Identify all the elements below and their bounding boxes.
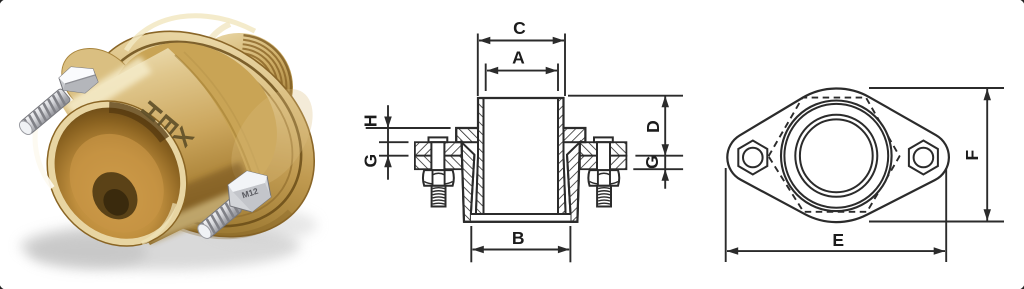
front view: left bolt hole	[743, 148, 763, 168]
front view: socket circle	[795, 115, 877, 197]
front view: right bolt hole	[914, 148, 934, 168]
section: left lower flange plate (hatched)	[415, 156, 462, 170]
section: left bolt cap	[429, 137, 448, 142]
front view: left hex nut	[738, 141, 767, 175]
dimension G (right)	[633, 155, 683, 181]
section: left bolt shaft	[431, 142, 444, 170]
dimension H	[360, 105, 450, 180]
section: left collar (hatched)	[456, 128, 478, 142]
dimension E	[726, 168, 947, 262]
front view: bore circle	[800, 119, 873, 192]
section: right stud thread	[597, 186, 611, 207]
section: left hex nut	[423, 170, 454, 186]
section: right lower flange plate (hatched)	[580, 156, 627, 170]
svg-text:D: D	[643, 120, 663, 133]
front view: boss outer circle	[781, 101, 892, 212]
section: left bell wall (hatched)	[462, 142, 475, 222]
svg-text:G: G	[642, 155, 662, 169]
section view: flanged fitting cross-section	[360, 18, 683, 262]
svg-text:B: B	[512, 228, 525, 248]
photo: flange plate	[47, 0, 367, 279]
section: liner outer lines	[476, 156, 478, 214]
photo: socket body cylinder	[62, 48, 254, 245]
section: right bolt shaft	[597, 142, 610, 170]
photo: soft drop shadow	[20, 222, 300, 270]
dimension B	[471, 226, 570, 262]
section: bottom face band	[471, 214, 571, 222]
front view: hidden square plate (dashed)	[769, 98, 900, 212]
front view: right hex nut	[909, 141, 938, 175]
section: left tube wall (hatched)	[476, 98, 484, 214]
dimension G (left)	[360, 142, 408, 167]
section: body outline	[456, 98, 585, 222]
section: right collar (hatched)	[564, 128, 586, 142]
photo: brass flanged fitting	[9, 0, 367, 279]
section: bell inner lines	[471, 155, 475, 214]
svg-text:C: C	[513, 18, 526, 38]
section: right bell wall (hatched)	[567, 142, 580, 222]
front view: oval flange	[726, 88, 1004, 262]
section: bore walls	[483, 98, 485, 214]
section: left stud thread	[432, 186, 446, 207]
svg-text:G: G	[360, 154, 380, 168]
front view: boss inner circle	[784, 104, 888, 208]
photo: lower-right stud with nut	[195, 171, 271, 241]
dimension D	[568, 96, 683, 189]
section: right tube wall (hatched)	[558, 98, 566, 214]
svg-text:H: H	[360, 114, 380, 127]
front view: flange outline	[727, 89, 949, 223]
section: right upper flange plate (hatched)	[580, 142, 627, 156]
photo: male threaded end	[185, 24, 293, 141]
section: right bolt cap	[594, 137, 613, 142]
photo: socket mouth	[9, 61, 215, 274]
svg-text:F: F	[962, 149, 982, 160]
section: left upper flange plate (hatched)	[415, 142, 462, 156]
dimension A	[486, 48, 558, 92]
photo: bell shoulder	[77, 11, 307, 235]
svg-text:A: A	[512, 48, 525, 68]
photo: flange ear (upper-left)	[49, 35, 149, 129]
svg-text:E: E	[832, 230, 844, 250]
dimension C	[478, 18, 565, 96]
section: right hex nut	[588, 170, 619, 186]
dimension F	[869, 88, 1004, 222]
photo: upper-left stud with nut	[17, 67, 98, 137]
